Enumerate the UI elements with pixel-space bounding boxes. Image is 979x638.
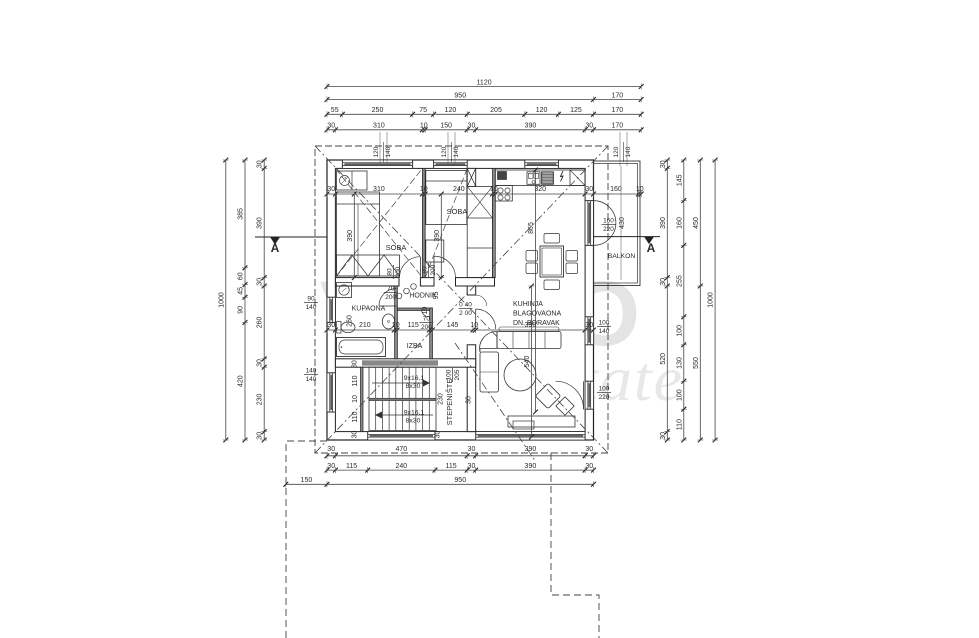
svg-text:200: 200 (421, 324, 432, 331)
svg-text:390: 390 (257, 217, 264, 229)
dimension right row a (660, 158, 671, 443)
dimension 30 rot labels bottom (351, 360, 472, 438)
callout W1 height (373, 132, 392, 166)
svg-text:160: 160 (603, 218, 614, 225)
dimension interior top row (325, 186, 644, 197)
svg-text:120: 120 (536, 107, 548, 114)
sofa vertical run (480, 352, 499, 392)
svg-text:90: 90 (238, 306, 245, 314)
svg-text:260: 260 (347, 315, 354, 327)
dining table (540, 246, 564, 277)
svg-text:30: 30 (257, 359, 264, 367)
dimension left row b (238, 158, 249, 443)
svg-text:30: 30 (434, 431, 441, 439)
svg-text:865: 865 (528, 222, 535, 234)
wardrobe soba1 (337, 255, 400, 276)
wall stairwell east lower (467, 345, 476, 432)
chimney block (467, 168, 476, 186)
dimension 260 bath (347, 315, 354, 327)
tv bench (508, 416, 575, 429)
label room SOBA 1 (386, 243, 407, 252)
svg-text:205: 205 (490, 107, 502, 114)
svg-text:BALKON: BALKON (608, 253, 636, 260)
dimension 1120 total (325, 79, 644, 89)
svg-text:30: 30 (351, 431, 358, 439)
svg-text:KUPAONA: KUPAONA (352, 306, 386, 313)
label door 80/200 b (422, 263, 438, 277)
outer wall ring (327, 160, 594, 440)
svg-text:230: 230 (257, 393, 264, 405)
wall hallway north segment a (335, 278, 399, 286)
svg-text:10: 10 (490, 186, 498, 193)
wall between SOBA1 and SOBA2 (422, 168, 425, 277)
wall izba east (430, 308, 433, 359)
svg-text:80: 80 (386, 268, 393, 276)
dimension bottom row1 (325, 446, 596, 459)
svg-text:10: 10 (420, 186, 428, 193)
svg-text:30: 30 (327, 463, 335, 470)
dimension 95 hallway (422, 292, 440, 315)
svg-text:390: 390 (525, 463, 537, 470)
dimension left total 1000 (218, 158, 229, 443)
svg-text:9x16,1: 9x16,1 (404, 375, 425, 382)
label room KUPAONA (352, 306, 386, 313)
svg-text:250: 250 (372, 107, 384, 114)
svg-text:10: 10 (392, 322, 400, 329)
armchair rotated (535, 383, 560, 408)
svg-text:70: 70 (387, 286, 395, 293)
dimension bottom row3 (283, 477, 596, 487)
svg-text:100: 100 (676, 325, 683, 337)
svg-text:30: 30 (327, 322, 335, 329)
hob circles (498, 188, 510, 200)
svg-text:10: 10 (470, 322, 478, 329)
svg-text:30: 30 (257, 432, 264, 440)
svg-text:140: 140 (306, 376, 317, 383)
svg-text:75: 75 (419, 107, 427, 114)
dimension interior bath row (325, 322, 596, 333)
label balcony 160/220 (602, 218, 616, 234)
svg-text:390: 390 (347, 230, 354, 242)
label room SOBA 2 (447, 207, 468, 216)
section A marker left (255, 237, 327, 255)
svg-text:205: 205 (454, 369, 461, 380)
staircase treads (369, 367, 436, 430)
dimension soba2 height 390 (434, 192, 445, 280)
svg-text:30: 30 (585, 186, 593, 193)
callout W3 height (613, 132, 632, 166)
svg-text:240: 240 (396, 463, 408, 470)
door living arc (476, 309, 496, 329)
svg-text:30: 30 (660, 160, 667, 168)
svg-text:950: 950 (454, 477, 466, 484)
svg-text:140: 140 (453, 146, 460, 157)
svg-text:150: 150 (440, 123, 452, 130)
svg-text:115: 115 (346, 463, 357, 470)
door izba arc (422, 309, 430, 317)
label door 70/200 kupaona (384, 286, 398, 302)
balcony outline (594, 161, 641, 286)
svg-text:150: 150 (301, 477, 313, 484)
dimension 110/10/110 stair (352, 375, 359, 422)
svg-text:390: 390 (660, 217, 667, 229)
svg-text:140: 140 (625, 146, 632, 157)
svg-text:100: 100 (676, 389, 683, 401)
label room HODNIK (409, 293, 437, 300)
desk soba2 (426, 240, 444, 262)
svg-text:55: 55 (331, 107, 339, 114)
diagonal soba2 (425, 168, 467, 277)
svg-text:200: 200 (395, 266, 402, 277)
svg-text:145: 145 (447, 322, 459, 329)
kitchen counter (495, 170, 585, 201)
dimension top row4 (325, 123, 644, 133)
svg-text:140: 140 (306, 304, 317, 311)
label right window 100/140 (597, 320, 611, 336)
door soba1 arc (400, 257, 421, 278)
room label KUHINJA (513, 301, 561, 327)
svg-text:540: 540 (524, 356, 531, 368)
svg-text:1000: 1000 (218, 292, 225, 308)
svg-text:130: 130 (676, 357, 683, 369)
dimension bottom row2 (325, 463, 596, 473)
svg-text:HODNIK: HODNIK (409, 293, 437, 300)
svg-text:950: 950 (454, 92, 466, 99)
svg-text:SOBA: SOBA (447, 207, 468, 216)
svg-text:SOBA: SOBA (386, 243, 407, 252)
wall kupaona east (395, 286, 398, 359)
coffee table round (504, 359, 536, 391)
washbasin (382, 314, 394, 329)
svg-text:230: 230 (438, 393, 445, 405)
svg-text:30: 30 (660, 278, 667, 286)
svg-text:115: 115 (446, 463, 457, 470)
svg-text:390: 390 (525, 446, 537, 453)
kitchen stove small (498, 172, 507, 180)
svg-text:120: 120 (373, 146, 380, 157)
svg-text:30: 30 (468, 446, 476, 453)
dining chairs right (566, 251, 578, 274)
balcony door swing arcs (594, 201, 616, 246)
roof overhang dashed outline (315, 146, 608, 453)
svg-text:320: 320 (534, 186, 546, 193)
wall stair corridor (361, 367, 364, 431)
svg-text:DN. BORAVAK: DN. BORAVAK (513, 320, 560, 327)
diagonal cross soba1 (335, 168, 422, 277)
dimension soba1 height 390 (347, 192, 358, 280)
svg-text:45: 45 (238, 287, 245, 295)
svg-text:125: 125 (570, 107, 582, 114)
dimension right total 1000 (708, 158, 719, 443)
sofa horizontal run (497, 327, 561, 349)
wall above staircase (335, 359, 475, 367)
lower floor dashed outline right (551, 453, 599, 638)
svg-text:30: 30 (327, 186, 335, 193)
label room IZBA (407, 343, 423, 350)
svg-text:470: 470 (395, 446, 407, 453)
label door 70/200 izba (419, 316, 433, 332)
svg-text:30: 30 (468, 463, 476, 470)
svg-text:10: 10 (420, 123, 428, 130)
hallway small window arc (476, 295, 487, 306)
svg-text:170: 170 (612, 107, 624, 114)
section A marker right (594, 237, 661, 255)
svg-text:110: 110 (676, 419, 683, 430)
svg-text:170: 170 (612, 92, 624, 99)
bed soba2 (426, 171, 467, 225)
label opening 040/200 (459, 302, 473, 318)
stair arrow down (375, 412, 433, 419)
svg-text:420: 420 (238, 375, 245, 387)
wall stairwell east upper (467, 286, 476, 295)
svg-text:STEPENIŠTE: STEPENIŠTE (445, 379, 454, 426)
svg-text:110: 110 (352, 411, 359, 422)
window W8 living door (585, 381, 593, 409)
roof diagonal hip line 2 (315, 146, 608, 453)
wall izba north (397, 308, 432, 311)
dining chair bottom (544, 280, 560, 290)
label left window 140/140 (304, 368, 318, 384)
svg-text:30: 30 (466, 396, 473, 404)
stair label flight1 (404, 375, 425, 390)
svg-text:8x30: 8x30 (406, 418, 421, 425)
svg-text:200: 200 (430, 264, 437, 275)
roof valley diagonal living room (455, 343, 536, 462)
svg-text:30: 30 (585, 123, 593, 130)
svg-text:70: 70 (423, 316, 431, 323)
dimension top row3 (325, 107, 644, 117)
svg-text:310: 310 (373, 123, 385, 130)
wall hallway north segment c (456, 278, 495, 286)
door soba2 arc (434, 256, 456, 278)
hallway hinge circles (396, 284, 416, 299)
svg-text:60: 60 (238, 272, 245, 280)
callout W2 height (441, 132, 460, 166)
window W4 kupaona (327, 297, 335, 322)
dimension living 540 (524, 284, 535, 440)
washing machine (337, 283, 352, 298)
window W2 soba2 (434, 160, 468, 168)
svg-text:10: 10 (636, 186, 644, 193)
svg-text:140: 140 (306, 368, 317, 375)
svg-text:30: 30 (257, 278, 264, 286)
dimension left row c (257, 158, 268, 443)
svg-text:390: 390 (434, 230, 441, 242)
side table rotated (556, 397, 574, 415)
svg-text:240: 240 (453, 186, 465, 193)
svg-text:110: 110 (352, 375, 359, 386)
svg-text:30: 30 (660, 432, 667, 440)
window W9 stepeniste (368, 432, 435, 440)
svg-text:A: A (647, 241, 656, 255)
svg-text:0 40: 0 40 (459, 302, 472, 309)
svg-text:1120: 1120 (477, 79, 492, 86)
svg-text:160: 160 (610, 186, 622, 193)
svg-text:520: 520 (660, 353, 667, 365)
svg-text:210: 210 (359, 322, 371, 329)
closet band soba2 (467, 186, 492, 277)
svg-text:170: 170 (612, 123, 624, 130)
svg-text:10: 10 (422, 307, 429, 315)
svg-text:90: 90 (307, 296, 315, 303)
stair arrow up (372, 380, 430, 387)
svg-text:120: 120 (441, 146, 448, 157)
label stair 100/205 (446, 368, 462, 382)
bed soba1 (337, 192, 380, 276)
svg-text:390: 390 (525, 123, 537, 130)
label room STEPENISTE (445, 379, 454, 426)
svg-text:30: 30 (351, 360, 358, 368)
svg-text:260: 260 (257, 316, 264, 328)
svg-text:115: 115 (408, 322, 419, 329)
svg-text:310: 310 (373, 186, 385, 193)
svg-text:30: 30 (257, 160, 264, 168)
svg-text:550: 550 (693, 357, 700, 369)
svg-text:8x30: 8x30 (406, 383, 421, 390)
label right window 100/220 (597, 386, 611, 402)
svg-text:30: 30 (327, 123, 335, 130)
dimension right row c (693, 158, 704, 443)
svg-text:120: 120 (445, 107, 457, 114)
bathtub (337, 338, 386, 357)
wall kitchen left (493, 168, 496, 277)
svg-text:9x16,1: 9x16,1 (404, 410, 425, 417)
window W3 kitchen (525, 160, 559, 168)
dimension balcony 430 (619, 166, 626, 280)
svg-text:220: 220 (603, 226, 614, 233)
svg-text:160: 160 (676, 217, 683, 229)
svg-text:30: 30 (585, 463, 593, 470)
label room BALKON (608, 253, 636, 260)
kitchen sink (527, 172, 540, 185)
svg-text:30: 30 (585, 446, 593, 453)
roof diagonal hip line 1 (315, 146, 608, 453)
svg-text:100: 100 (599, 320, 610, 327)
svg-text:450: 450 (693, 217, 700, 229)
svg-text:145: 145 (676, 174, 683, 186)
svg-text:80: 80 (422, 266, 429, 274)
sofa corner (480, 331, 497, 352)
svg-text:10: 10 (352, 395, 359, 403)
toilet (337, 322, 356, 334)
svg-text:200: 200 (385, 294, 396, 301)
svg-text:BLAGOVAONA: BLAGOVAONA (513, 311, 561, 318)
dimension kitchen 865 (528, 168, 538, 415)
living door arc (556, 381, 584, 409)
svg-text:30: 30 (585, 322, 593, 329)
dimension 950+170 (325, 92, 644, 102)
wall hallway north segment b (420, 278, 434, 286)
window W1 soba1 (342, 160, 412, 168)
dimension right row b (676, 158, 687, 443)
stair label flight2 (404, 410, 425, 425)
svg-text:30: 30 (327, 446, 335, 453)
svg-text:255: 255 (676, 275, 683, 287)
svg-text:140: 140 (599, 328, 610, 335)
label left window 90/140 (304, 296, 318, 312)
window W7 dining (585, 317, 593, 345)
window W5 stepeniste (327, 373, 335, 412)
svg-text:2 00: 2 00 (459, 310, 472, 317)
kitchen oven hatched (542, 172, 554, 185)
watermark line 1 (320, 263, 646, 365)
svg-text:220: 220 (599, 394, 610, 401)
watermark line 2 (396, 343, 684, 414)
svg-text:120: 120 (613, 146, 620, 157)
window W10 living (476, 432, 585, 440)
svg-text:KUHINJA: KUHINJA (513, 301, 543, 308)
label door 80/200 a (386, 265, 402, 279)
svg-text:100: 100 (599, 386, 610, 393)
dining chairs left (526, 251, 538, 274)
svg-text:430: 430 (619, 217, 626, 229)
fridge (570, 170, 585, 186)
svg-text:1000: 1000 (708, 292, 715, 308)
electric symbol (561, 171, 564, 182)
svg-text:385: 385 (238, 208, 245, 220)
door kupaona arc (379, 289, 397, 307)
lower floor dashed outline left (286, 441, 327, 638)
svg-text:A: A (271, 241, 280, 255)
svg-text:140: 140 (385, 146, 392, 157)
svg-text:IZBA: IZBA (407, 343, 423, 350)
dining chair top (544, 234, 560, 244)
dimension 230 stair (438, 393, 445, 405)
svg-text:30: 30 (468, 123, 476, 130)
nightstand with lamp (337, 171, 368, 190)
window W6 balcony door (585, 201, 593, 246)
